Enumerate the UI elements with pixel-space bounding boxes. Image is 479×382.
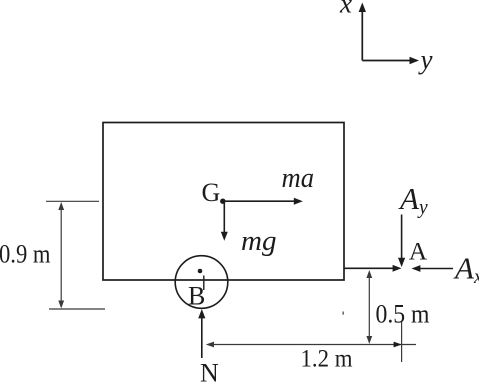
svg-text:1.2 m: 1.2 m [301, 344, 353, 373]
mg arrow [221, 201, 228, 241]
svg-text:ma: ma [282, 162, 315, 194]
Ay arrow [398, 215, 405, 268]
wheel circle B [175, 256, 228, 309]
svg-text:A: A [409, 236, 428, 265]
svg-text:B: B [188, 282, 205, 311]
wheel center dot [198, 269, 203, 274]
svg-text:mg: mg [241, 225, 277, 257]
1.2m right tick [401, 322, 403, 362]
svg-text:G: G [202, 178, 221, 207]
arrow from body to A [344, 265, 402, 272]
0.9m bottom tick [49, 308, 105, 310]
speck artifact [342, 312, 344, 315]
svg-text:0.9 m: 0.9 m [0, 240, 51, 269]
tick under dot [203, 276, 205, 291]
svg-text:y: y [418, 45, 433, 75]
0.5m dimension arrow [366, 270, 372, 344]
svg-text:0.5 m: 0.5 m [376, 300, 430, 329]
node G dot [220, 199, 225, 204]
svg-text:N: N [200, 359, 219, 382]
1.2m dimension line [206, 342, 416, 348]
axis x arrow (vertical) [359, 3, 366, 61]
0.9m top tick [46, 200, 99, 202]
svg-text:x: x [339, 0, 352, 19]
body rectangle [103, 123, 344, 281]
Ax arrow [412, 265, 454, 272]
0.9m dimension arrow [58, 202, 64, 309]
axis y arrow (horizontal) [362, 57, 419, 64]
N arrow [198, 309, 205, 358]
ma arrow [223, 198, 303, 205]
